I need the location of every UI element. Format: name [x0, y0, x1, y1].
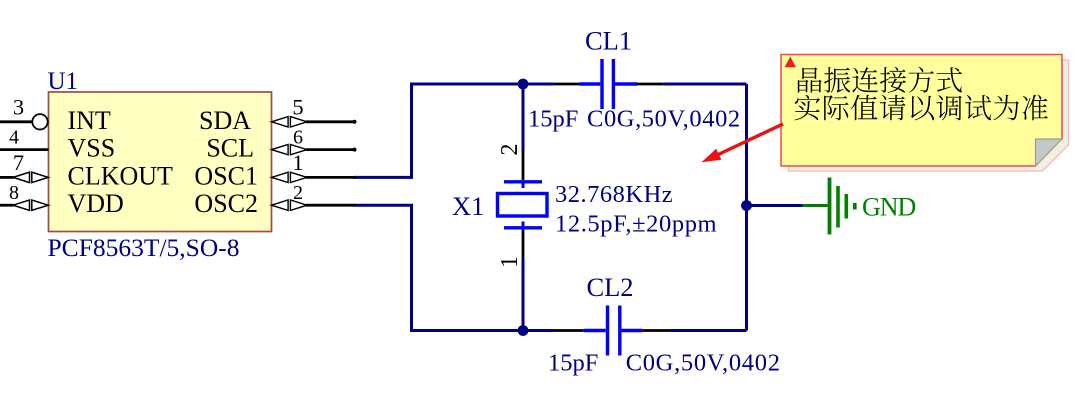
right rail [745, 84, 748, 331]
junction right rail / gnd [741, 200, 752, 211]
svg-text:32.768KHz: 32.768KHz [555, 181, 673, 208]
svg-text:1: 1 [292, 150, 303, 175]
IC U1 body [49, 92, 272, 232]
wire OSC2 to bottom rail [356, 205, 554, 330]
svg-text:4: 4 [9, 126, 19, 148]
svg-text:OSC2: OSC2 [194, 189, 258, 218]
svg-text:C0G,50V,0402: C0G,50V,0402 [587, 106, 741, 133]
svg-text:7: 7 [13, 150, 24, 175]
svg-text:CLKOUT: CLKOUT [68, 161, 174, 190]
svg-text:OSC1: OSC1 [194, 161, 258, 190]
svg-text:PCF8563T/5,SO-8: PCF8563T/5,SO-8 [48, 233, 240, 262]
crystal pin 1 [522, 230, 525, 260]
svg-text:15pF: 15pF [528, 106, 578, 133]
pin 8 bidirectional arrow [13, 200, 48, 210]
svg-text:VDD: VDD [68, 189, 124, 218]
red arrow from note [702, 124, 784, 162]
svg-text:VSS: VSS [68, 134, 116, 163]
junction top [518, 79, 529, 90]
svg-text:CL1: CL1 [585, 25, 632, 55]
pin 8 VDD wire [0, 204, 14, 207]
pin 2 OSC2 wire [306, 204, 355, 207]
wire OSC1 to top rail [356, 84, 554, 177]
svg-text:3: 3 [13, 95, 24, 120]
svg-text:U1: U1 [48, 68, 79, 95]
capacitor CL2 [554, 306, 670, 356]
svg-text:SDA: SDA [199, 106, 251, 135]
crystal branch wire top [522, 84, 525, 151]
pin 3 INT wire [0, 120, 32, 123]
pin 4 VSS wire [0, 148, 49, 151]
crystal branch wire bottom [522, 259, 525, 331]
svg-text:SCL: SCL [206, 134, 254, 163]
crystal pin 2 [522, 151, 525, 181]
svg-text:1: 1 [497, 256, 523, 268]
pin 2 bidirectional arrow [272, 200, 308, 210]
svg-text:8: 8 [9, 182, 19, 204]
capacitor CL1 [554, 59, 664, 109]
note red triangle marker [785, 57, 796, 68]
crystal X1 symbol [498, 182, 548, 228]
svg-text:INT: INT [68, 106, 111, 135]
junction bottom [518, 325, 529, 336]
ground symbol [803, 178, 855, 235]
pin 7 CLKOUT wire [0, 176, 14, 179]
top rail right of CL1 [663, 83, 746, 86]
svg-text:2: 2 [497, 144, 523, 156]
pin 1 bidirectional arrow [272, 172, 308, 182]
svg-text:X1: X1 [452, 191, 484, 221]
pin 6 SCL wire [306, 148, 355, 151]
note fold corner [1036, 139, 1063, 166]
note main box [781, 55, 1062, 167]
pin 5 SDA wire [306, 120, 355, 123]
svg-text:CL2: CL2 [586, 272, 633, 302]
pin 1 OSC1 wire [306, 176, 355, 179]
svg-text:C0G,50V,0402: C0G,50V,0402 [626, 350, 781, 377]
pin 2 end dot [353, 204, 356, 207]
note text line 1 [798, 67, 962, 93]
pin 5 bidirectional arrow [272, 117, 308, 127]
svg-text:2: 2 [293, 182, 303, 204]
svg-text:15pF: 15pF [548, 350, 598, 377]
bottom rail right of CL2 [670, 329, 747, 332]
pin 7 bidirectional arrow [13, 172, 48, 182]
pin 6 bidirectional arrow [272, 144, 308, 154]
wire to GND [747, 204, 803, 207]
note text line 2 [795, 95, 1048, 121]
pin 1 end dot [353, 176, 356, 179]
svg-text:12.5pF,±20ppm: 12.5pF,±20ppm [555, 211, 717, 238]
svg-text:6: 6 [293, 126, 303, 148]
svg-text:5: 5 [292, 95, 303, 120]
pin 3 inversion bubble [32, 114, 47, 129]
svg-text:GND: GND [862, 193, 916, 222]
note shadow box [789, 60, 1069, 171]
